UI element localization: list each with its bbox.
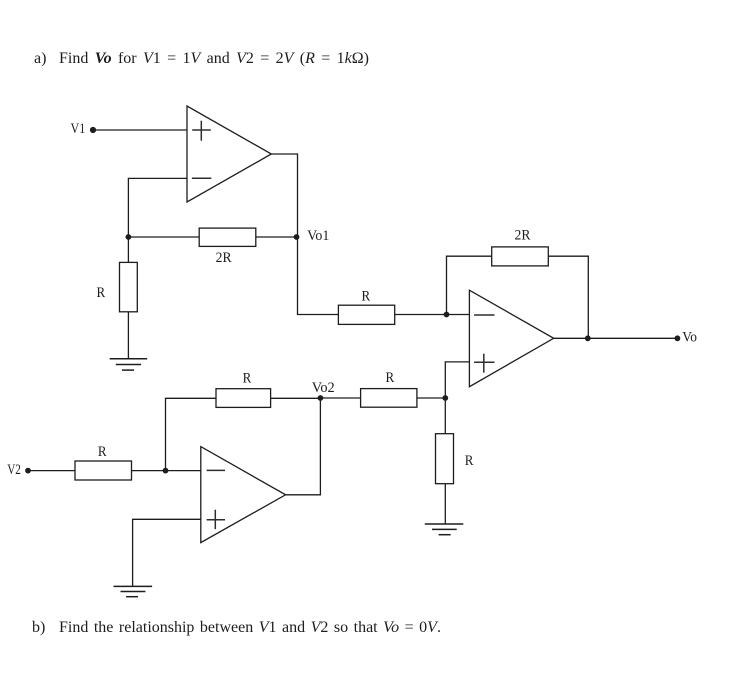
svg-text:Vo1: Vo1 xyxy=(307,228,329,244)
svg-text:R: R xyxy=(361,289,370,305)
resistor 2R (U1 feedback) xyxy=(199,228,256,246)
node D junction xyxy=(163,468,169,474)
U3 - input symbol xyxy=(474,314,494,316)
U2 + input symbol xyxy=(207,510,225,530)
resistor R3 xyxy=(75,461,132,480)
wire node D to resistor R6 xyxy=(166,398,217,470)
node A junction xyxy=(125,234,131,240)
resistor R2 xyxy=(338,305,394,324)
wire Vo1 to resistor R2 xyxy=(298,237,339,315)
node Vo1 xyxy=(294,234,300,240)
svg-text:R: R xyxy=(98,444,107,460)
resistor R4 xyxy=(361,389,417,408)
wire R4 to node C xyxy=(417,397,445,399)
wire node A to resistor 2R feedback xyxy=(128,236,199,238)
wire V1 to U1 noninverting input xyxy=(93,129,187,131)
U1 - input symbol xyxy=(192,177,211,179)
question a text xyxy=(34,51,46,67)
wire R5 to ground xyxy=(444,484,446,524)
node V2 terminal xyxy=(25,468,31,474)
node U3 output junction xyxy=(585,335,591,341)
svg-text:V1: V1 xyxy=(71,121,86,137)
svg-text:Vo: Vo xyxy=(682,329,697,345)
svg-text:2R: 2R xyxy=(515,228,531,244)
wire V2 to resistor R3 xyxy=(28,470,75,472)
wire R3 to U2 inverting input xyxy=(132,470,201,472)
wire R1 to ground xyxy=(127,312,129,359)
ground GND3 xyxy=(114,586,153,596)
svg-text:R: R xyxy=(465,453,474,469)
op-amp U3 xyxy=(469,290,553,387)
ground GND2 xyxy=(425,524,464,535)
wire node B to resistor 2R feedback of U3 xyxy=(447,256,492,314)
svg-text:R: R xyxy=(385,370,394,386)
resistor R6 (U2 feedback) xyxy=(216,389,271,408)
node Vo terminal xyxy=(675,335,681,341)
wire Vo2 to resistor R4 xyxy=(320,397,360,399)
wire R6 to node Vo2 xyxy=(271,397,321,399)
question b text xyxy=(32,620,45,636)
wire node A to resistor R1 xyxy=(127,237,129,262)
wire node C to resistor R5 xyxy=(444,398,446,434)
wire node B to U3 inverting input xyxy=(447,314,470,316)
wire resistor 2R to node Vo1 xyxy=(256,236,297,238)
op-amp U2 xyxy=(201,447,286,543)
wire resistor 2R to U3 output xyxy=(548,256,588,338)
resistor R5 xyxy=(436,434,454,484)
wire U1 output xyxy=(271,154,297,237)
op-amp U1 xyxy=(187,106,271,202)
svg-text:V2: V2 xyxy=(7,462,21,478)
wire U3 noninverting input to node C xyxy=(445,362,469,398)
node Vo2 xyxy=(318,395,324,401)
U3 + input symbol xyxy=(474,354,494,373)
wire U3 output to Vo xyxy=(554,337,678,339)
svg-text:2R: 2R xyxy=(216,250,232,266)
svg-text:R: R xyxy=(96,285,105,301)
node C junction xyxy=(442,395,448,401)
svg-text:Vo2: Vo2 xyxy=(312,380,335,396)
U1 + input symbol xyxy=(192,121,211,141)
resistor 2R (U3 feedback) xyxy=(492,247,549,266)
wire U2 noninverting input to ground xyxy=(133,519,201,586)
U2 - input symbol xyxy=(207,469,225,471)
node V1 terminal xyxy=(90,127,96,133)
node B junction xyxy=(444,312,450,318)
wire R2 to node B xyxy=(395,314,447,316)
wire node Vo2 to U2 output xyxy=(286,398,321,495)
svg-text:R: R xyxy=(243,371,252,387)
wire U1 inverting input to node A xyxy=(128,178,187,237)
resistor R1 xyxy=(120,262,138,311)
ground GND1 xyxy=(110,359,148,370)
